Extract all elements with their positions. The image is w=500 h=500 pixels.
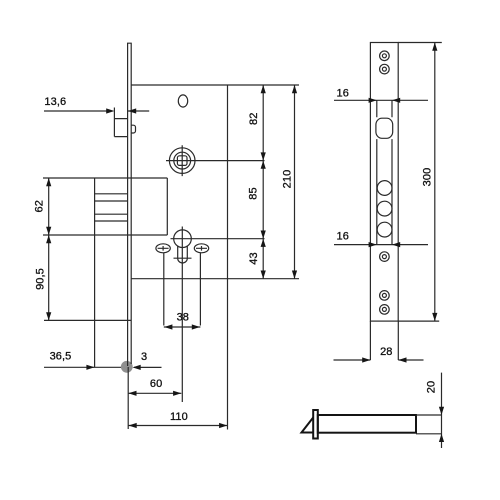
dimension 110 [129,411,228,428]
svg-text:90,5: 90,5 [35,268,47,290]
euro cylinder hole [171,227,265,403]
svg-text:82: 82 [248,113,260,125]
hole circle 1 [377,181,392,196]
faceplate side view [313,410,318,439]
dimension 85 [248,161,266,239]
svg-text:28: 28 [380,346,392,358]
svg-text:85: 85 [248,187,260,199]
channel lines [377,100,392,244]
pivot dot [121,361,133,373]
latch bolt side view [318,415,416,433]
dimension 16 top [334,87,428,103]
svg-text:3: 3 [141,351,147,363]
svg-text:110: 110 [170,411,188,423]
svg-text:62: 62 [34,200,46,212]
svg-text:16: 16 [337,231,349,243]
svg-text:20: 20 [426,381,438,393]
dimension 28 [334,321,424,363]
screw boss left [156,244,170,326]
hole circle 3 [377,222,392,237]
faceplate front view [370,43,398,322]
dimension 60 [128,378,181,396]
screw hole bottom 1 [380,291,390,301]
screw hole mid [380,252,390,262]
svg-text:60: 60 [150,378,162,390]
svg-text:16: 16 [337,87,349,99]
screw boss right [194,244,208,326]
hole circle 2 [377,201,392,216]
extension line below dot [127,367,129,429]
faceplate edge view [128,43,132,366]
dimension 13,6 [44,96,149,114]
dimension 36,5 [44,351,121,370]
svg-text:38: 38 [177,311,189,323]
dimension 16 bottom [334,231,428,248]
bolt bevel [302,418,314,433]
deadlatch pin [131,125,135,133]
deadbolt [43,178,167,367]
dimension 300 [398,43,442,322]
dimension 90,5 [35,235,132,320]
screw hole top 2 [380,64,390,74]
dimension 38 [164,311,201,329]
dimension 3 [133,351,162,370]
handle follower [166,145,265,176]
svg-text:36,5: 36,5 [50,351,72,363]
dimension 62 [34,178,52,235]
svg-text:300: 300 [422,168,434,187]
dimension 82 [248,85,266,161]
svg-text:13,6: 13,6 [44,96,66,108]
screw hole top 1 [380,51,390,61]
cutout [376,118,393,138]
dimension 43 [248,239,266,279]
screw hole bottom 2 [380,305,390,315]
lock case body [131,85,299,430]
dimension 20 [416,373,444,448]
svg-text:210: 210 [282,170,294,189]
svg-text:43: 43 [248,252,260,264]
dimension 210 [282,85,298,279]
oval hole [178,95,187,107]
latch bolt front view [114,108,127,137]
